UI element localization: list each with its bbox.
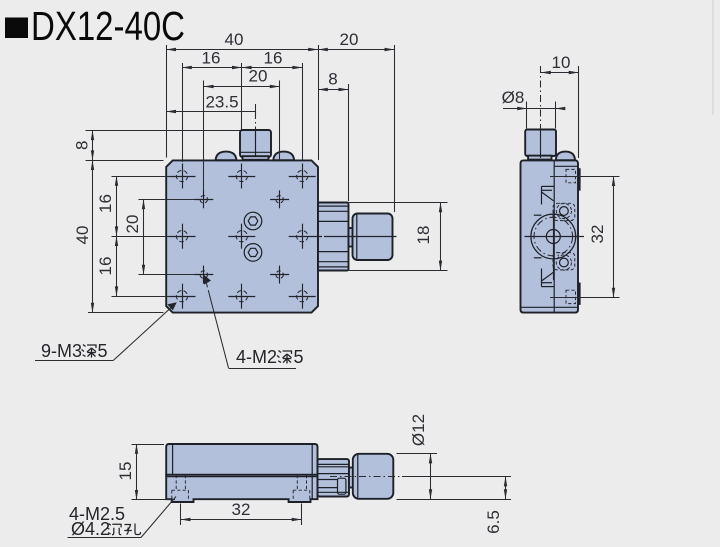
side wing lower <box>534 258 554 287</box>
bottom right wall line <box>311 445 313 500</box>
M3 hole r3c3 <box>289 284 316 309</box>
bottom clamp ridges <box>318 464 349 492</box>
3x3 M3 holes: crosshairs and dashed circles <box>169 164 323 309</box>
plan body plate <box>166 160 318 312</box>
dimension 32 bottom <box>181 519 302 521</box>
svg-text:18: 18 <box>414 226 433 245</box>
ext line right body edge up <box>318 45 320 160</box>
svg-text:32: 32 <box>232 500 251 519</box>
label 4-M2.5 counterbore <box>68 497 177 540</box>
label 9-M3深5 <box>35 302 177 361</box>
svg-text:8: 8 <box>73 141 92 150</box>
dimension 16 left <box>182 67 242 69</box>
side big bearing circle <box>531 214 576 259</box>
socket cap screw upper <box>244 212 262 230</box>
svg-text:20: 20 <box>123 215 142 234</box>
dimension 32 side <box>613 176 615 297</box>
side internal vertical split <box>553 161 555 312</box>
ext lines 18 knob <box>349 202 448 204</box>
dimension 16 right <box>242 67 302 69</box>
bottom clamp ring <box>318 459 350 496</box>
side ear lug <box>556 152 575 161</box>
side right protrusion bottom <box>578 283 581 305</box>
bottom centerline <box>330 476 402 478</box>
svg-text:9-M3: 9-M3 <box>41 341 82 361</box>
M3 hole r1c3 <box>289 164 316 189</box>
faint page rule right <box>712 0 714 115</box>
side centerline horizontal <box>525 236 585 238</box>
ext line knob right up <box>394 45 396 212</box>
svg-text:DX12-40C: DX12-40C <box>31 3 185 49</box>
dimension 10 side <box>541 72 579 74</box>
svg-text:20: 20 <box>249 67 268 86</box>
svg-text:16: 16 <box>202 49 221 68</box>
left ear lug <box>216 152 237 161</box>
dimension 8 vertical left <box>92 130 94 160</box>
side knob <box>525 130 556 157</box>
svg-text:32: 32 <box>588 225 607 244</box>
dimension 15 <box>136 444 138 500</box>
centerline of block dashes <box>255 112 257 130</box>
shaft between ring and knob <box>349 228 354 247</box>
bottom body upper part <box>166 444 317 475</box>
socket cap screw lower <box>244 244 262 262</box>
M3 hole r2c3 <box>289 224 322 249</box>
svg-text:40: 40 <box>73 226 92 245</box>
ext lines 16/16 left rows <box>112 176 170 178</box>
M2 hole bottom-right <box>270 266 289 284</box>
ext lines 20 vertical M2 rows <box>139 199 196 201</box>
svg-text:10: 10 <box>552 53 571 72</box>
bottom left wall line <box>172 445 174 475</box>
M2 hole top-left <box>194 190 213 208</box>
side hidden screw hole top right <box>566 169 576 182</box>
left ext line y=130 block top <box>86 130 241 132</box>
svg-text:23.5: 23.5 <box>205 93 238 112</box>
svg-text:5: 5 <box>98 341 108 361</box>
ext line clamp right <box>348 84 350 201</box>
svg-text:20: 20 <box>340 30 359 49</box>
right ear lug <box>273 152 294 161</box>
side knob centerline <box>540 66 542 129</box>
M3 hole r2c2 <box>228 224 255 249</box>
svg-text:5: 5 <box>294 347 304 367</box>
svg-text:16: 16 <box>96 194 115 213</box>
bottom shaft <box>349 468 353 488</box>
dimension 18 <box>440 203 442 271</box>
knob inner left line <box>356 215 358 260</box>
dimension 40 vertical left <box>92 160 94 312</box>
svg-text:15: 15 <box>116 462 135 481</box>
lock block flange <box>243 156 269 160</box>
left ext line y=160 body top <box>86 160 164 162</box>
dimension 40 top <box>166 49 318 51</box>
ext line side right top <box>578 66 580 158</box>
dimension Ø8 <box>503 108 527 110</box>
bottom seam double line <box>167 476 318 478</box>
svg-text:6.5: 6.5 <box>484 510 503 534</box>
drive knob (plan) <box>353 214 393 261</box>
side right protrusion top <box>578 168 581 190</box>
knurl ridges <box>319 206 349 267</box>
lock block lower line <box>241 151 271 153</box>
bottom knob <box>353 454 394 499</box>
dimension 20 top right <box>318 49 394 51</box>
dimension 8 clamp <box>318 89 348 91</box>
bottom counterbore right <box>293 475 310 499</box>
left ext line y=312 body bottom <box>88 312 164 314</box>
title black square <box>5 18 28 39</box>
M3 hole r1c1 <box>169 164 196 189</box>
svg-text:4-M2: 4-M2 <box>236 347 277 367</box>
label 4-M2深5 <box>204 275 304 369</box>
dimension 23.5 <box>166 111 255 113</box>
actuator centerline <box>324 236 397 238</box>
side wing upper <box>534 186 554 215</box>
side screw top <box>553 203 575 220</box>
M3 hole r2c1 <box>169 224 196 249</box>
side centerline vertical <box>553 213 555 281</box>
M3 hole r3c2 <box>228 284 255 309</box>
dimension Ø12 <box>430 454 432 500</box>
side body <box>521 160 579 312</box>
lock block mid line <box>255 131 257 157</box>
4 M2 holes <box>194 190 289 283</box>
side center hole <box>546 230 560 244</box>
side knob flange <box>528 156 551 160</box>
dimension 20 vertical M2 rows <box>143 199 145 274</box>
ext lines Ø8 <box>526 102 528 129</box>
bottom body base part <box>166 475 317 502</box>
dimension 16 vertical upper <box>116 176 118 236</box>
dimension 16 vertical lower <box>116 236 118 296</box>
bottom counterbore left <box>172 475 189 499</box>
svg-text:8: 8 <box>328 70 337 89</box>
svg-text:Ø12: Ø12 <box>409 414 428 446</box>
dimension 6.5 <box>505 477 507 500</box>
ext lines 20 (M2 columns) <box>203 81 205 192</box>
svg-text:40: 40 <box>225 30 244 49</box>
ext lines Ø12 <box>397 453 438 455</box>
side bottom plate line <box>521 306 578 308</box>
M3 hole r1c2 <box>228 164 255 189</box>
side screw bottom <box>553 253 575 271</box>
bottom clamp inner rect <box>338 478 346 494</box>
top lock block <box>240 130 271 157</box>
svg-text:Ø4.2: Ø4.2 <box>71 519 110 539</box>
bottom knob inner line <box>357 455 359 498</box>
svg-text:Ø8: Ø8 <box>502 88 525 107</box>
ext lines 32 side <box>550 176 620 178</box>
ext line left body top corner up <box>166 45 168 158</box>
dimension 20 M2 cols <box>204 86 280 88</box>
svg-text:16: 16 <box>264 49 283 68</box>
side bearing dashed circle <box>534 217 573 256</box>
ext lines 32 bottom <box>180 504 182 526</box>
M3 hole r3c1 <box>169 284 196 309</box>
knurled clamp ring (plan) <box>318 203 349 271</box>
side hidden screw hole bottom right <box>566 290 576 303</box>
svg-text:16: 16 <box>96 257 115 276</box>
ext lines 16/16 <box>182 63 184 162</box>
side top-right step line <box>554 165 577 167</box>
M2 hole bottom-left <box>194 266 213 284</box>
ext lines 15 <box>132 444 165 446</box>
M2 hole top-right <box>270 190 289 208</box>
